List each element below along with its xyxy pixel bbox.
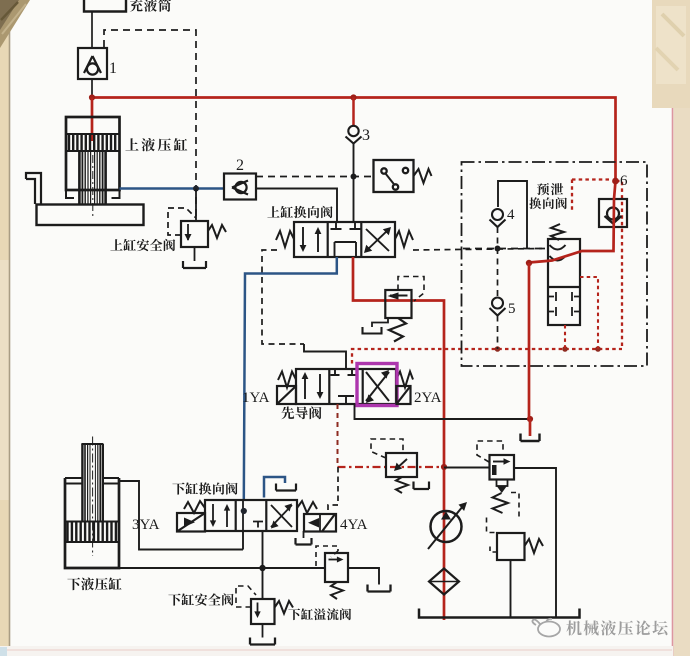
check valve 2 <box>224 174 256 200</box>
dashed pilot from check valve 2 to pressure switch <box>256 176 373 178</box>
lower directional valve (3-pos 4-way) <box>205 500 297 531</box>
svg-text:2: 2 <box>236 157 244 174</box>
red wire through valve 6 <box>529 181 616 263</box>
wire tank to check valve 1 <box>91 12 93 49</box>
wire overflow valve right to tank <box>348 568 379 585</box>
wire lower cylinder bottom port <box>119 567 325 569</box>
wire check valve 2 to directional valve <box>256 189 337 223</box>
label 换向阀 <box>529 197 567 209</box>
wire relief valve to tank drop <box>514 468 556 618</box>
label 上液压缸 (upper cylinder) <box>125 138 187 151</box>
sequence valve <box>363 290 412 342</box>
remote valve pilot dashed box <box>371 439 403 458</box>
red dotted valve ports <box>565 277 598 349</box>
blue wire upper valve to lower valve <box>244 257 337 500</box>
check valve 4 <box>490 209 506 227</box>
wire lower cylinder top port <box>119 481 243 550</box>
watermark 机械液压论坛 <box>566 620 667 635</box>
label 下缸溢流阀 (lower overflow valve) <box>288 608 351 620</box>
overflow valve pilot dashed loop <box>316 546 338 566</box>
wire lower stage to tank <box>510 560 512 618</box>
red dash-dot pilot line <box>338 466 445 468</box>
node junction <box>495 246 501 252</box>
label 预泄 <box>537 183 563 195</box>
top-right beige corner block <box>652 0 690 108</box>
solenoid 4YA <box>297 501 336 532</box>
wire pilot connection to pilot valve <box>304 344 346 369</box>
pump <box>428 502 467 549</box>
bottom-left cyan corner bit <box>0 647 7 656</box>
blue wire cylinder to check valve 2 <box>120 187 225 190</box>
label 上缸安全阀 (upper safety valve) <box>110 239 175 251</box>
check valve 5 <box>490 298 506 316</box>
red wire upper valve down and right <box>353 257 444 620</box>
relief valve spring stage <box>487 480 520 533</box>
node dots on red pilot line <box>495 346 601 352</box>
label 先导阀 (pilot valve) <box>281 406 321 419</box>
tank under blue hook <box>276 484 296 491</box>
wire valve T port to tank <box>303 531 305 538</box>
spring above pre-discharge valve <box>551 224 564 240</box>
node 6 junction <box>612 178 619 185</box>
svg-text:4YA: 4YA <box>340 517 368 533</box>
relief valve lower stage <box>490 533 543 560</box>
pilot valve body <box>278 369 413 404</box>
black dashed to solenoid 4YA <box>328 467 338 513</box>
node junction blue at valve P port <box>241 508 247 514</box>
wire valve A port down <box>242 531 244 550</box>
right beige margin strip <box>674 0 690 656</box>
dashed pilot line from valve 1 area <box>104 30 196 221</box>
svg-text:5: 5 <box>508 301 516 317</box>
press frame hook <box>26 173 41 204</box>
lower hydraulic cylinder <box>65 437 119 569</box>
node junction on pilot line <box>351 174 357 180</box>
dashed wire cv5 to pilot line <box>497 316 499 350</box>
pressure switch <box>374 160 432 192</box>
tank under valve T port <box>296 538 312 545</box>
wire red line to relief valve <box>444 467 490 469</box>
upper directional valve (3-pos 4-way) <box>276 222 413 257</box>
svg-text:1YA: 1YA <box>242 390 270 406</box>
remote pressure valve <box>386 453 429 493</box>
upper safety valve pilot dashed box <box>168 208 196 235</box>
svg-text:3YA: 3YA <box>132 517 160 533</box>
wire safety valve to tank <box>194 247 196 261</box>
node junction lower line <box>259 565 265 571</box>
svg-text:6: 6 <box>620 173 628 189</box>
lower overflow valve <box>325 553 348 599</box>
svg-text:1: 1 <box>109 60 117 77</box>
node junction at valve 1 outlet <box>89 94 95 100</box>
red wire into upper cylinder <box>91 98 94 142</box>
pre-discharge valve body <box>548 239 580 325</box>
check valve 6 box <box>599 199 627 227</box>
internal manifold lines <box>498 181 527 249</box>
dashed wire cv4 to cv5 <box>497 227 499 296</box>
node at pre-discharge valve inlet <box>526 260 532 266</box>
bottom light strip <box>0 646 673 656</box>
top-left folded corner texture <box>0 0 30 48</box>
wire valve B port down <box>262 531 264 599</box>
red dotted pilot line main <box>352 349 622 364</box>
red dotted line right leg <box>616 181 622 349</box>
tank under lower safety valve <box>250 638 275 645</box>
wire check valve 3 down to directional valve <box>353 144 355 223</box>
label 下液压缸 (lower cylinder) <box>67 577 121 590</box>
upper hydraulic cylinder <box>66 117 120 216</box>
solenoid 2YA <box>397 386 411 404</box>
red wire to check valve 3 <box>352 98 355 127</box>
watermark logo <box>532 619 560 637</box>
dash-dot enclosure box <box>462 162 648 366</box>
filter <box>429 569 459 595</box>
magenta highlight box <box>357 364 397 406</box>
relief valve pilot dashed box <box>477 441 503 462</box>
charge tank box <box>84 0 126 12</box>
wire check valve 1 to junction <box>91 79 93 98</box>
dashed pilot right of upper valve <box>413 249 546 251</box>
node junction on red return <box>527 416 533 422</box>
sequence valve pilot dashed box <box>398 277 424 302</box>
red main pressure line top <box>92 98 616 182</box>
node junction red pilot <box>441 464 447 470</box>
check valve 3 <box>346 126 362 144</box>
label 下缸换向阀 (lower directional valve) <box>172 482 237 494</box>
svg-text:2YA: 2YA <box>414 390 442 406</box>
maroon dashed drain from pilot valve <box>337 404 339 467</box>
node junction on blue line <box>193 186 199 192</box>
check valve 1 <box>78 48 107 79</box>
upper cyl safety valve <box>181 221 226 247</box>
red wire down to drain tank <box>529 263 530 436</box>
solenoid 1YA <box>277 386 296 404</box>
press platen <box>37 205 144 226</box>
black wire pilot valve to red line <box>355 404 531 419</box>
label 下缸安全阀 (lower safety valve) <box>168 593 233 605</box>
svg-text:3: 3 <box>362 127 370 144</box>
wire safety valve to tank <box>262 624 264 638</box>
tank symbol right <box>521 434 540 442</box>
left beige margin strip <box>0 0 10 647</box>
dashed line across enclosure <box>463 248 546 250</box>
tank symbol under safety valve <box>183 261 206 268</box>
wire down to upper safety valve <box>195 189 197 222</box>
right pink edge line <box>672 0 674 656</box>
blue hook to tank <box>264 477 285 498</box>
node junction to check valve 3 <box>350 94 356 100</box>
label 充液筒 (charge tank) <box>130 0 171 12</box>
tank right of overflow valve <box>368 585 391 592</box>
pilot relief valve upper stage <box>490 455 515 480</box>
svg-text:4: 4 <box>507 207 515 223</box>
lower safety valve <box>251 599 293 624</box>
red dotted line left leg at valve 6 <box>572 180 612 212</box>
lower safety valve pilot dashed box <box>236 586 256 607</box>
solenoid 3YA <box>177 501 205 532</box>
dashed pilot left of upper valve <box>262 250 304 344</box>
label 上缸换向阀 (upper directional valve) <box>267 206 332 218</box>
bottom tank line <box>419 609 580 618</box>
